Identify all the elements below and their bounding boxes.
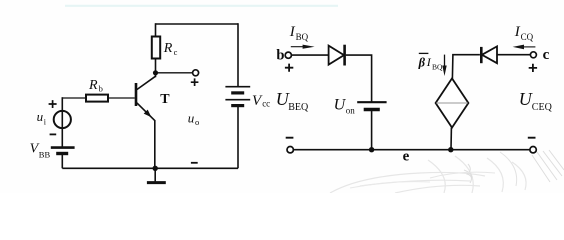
svg-text:u: u bbox=[37, 109, 44, 124]
transistor T base bar bbox=[135, 83, 138, 106]
label + (output polarity) bbox=[191, 78, 199, 86]
wire: base wire from source corner to Rb bbox=[62, 97, 86, 99]
battery Uon short plate bbox=[364, 108, 380, 111]
wire: VBB to bottom wire bbox=[61, 154, 63, 169]
wire: left branch vertical through source bbox=[61, 97, 63, 147]
wire: Rc branch from top wire to resistor bbox=[155, 23, 157, 37]
wire: Vcc branch upper vertical bbox=[237, 23, 239, 86]
svg-text:U: U bbox=[334, 97, 347, 114]
node: Uon junction dot bbox=[369, 147, 374, 152]
label - (right bottom polarity) bbox=[528, 137, 536, 139]
label ui bbox=[37, 109, 47, 126]
label ICQ bbox=[514, 24, 534, 42]
battery VBB long plate bbox=[51, 146, 75, 149]
battery Vcc plate 2 short bbox=[231, 91, 244, 94]
decorative scan band (not labelled further) bbox=[65, 5, 338, 7]
battery VBB short plate bbox=[56, 152, 68, 155]
wire: D1 to Uon corner bbox=[346, 55, 372, 102]
svg-text:BB: BB bbox=[39, 149, 51, 159]
wire: base wire from Rb to bar bbox=[108, 97, 135, 99]
battery Vcc plate 1 long bbox=[225, 86, 250, 88]
battery Vcc plate 4 short bbox=[231, 104, 244, 107]
transistor T emitter arrow bbox=[144, 110, 152, 118]
wire: b to diode D1 bbox=[292, 54, 329, 56]
diode D1 triangle bbox=[329, 46, 344, 65]
svg-text:β: β bbox=[418, 56, 426, 70]
terminal: output open circle bbox=[193, 70, 199, 76]
node: collector junction dot bbox=[153, 70, 158, 75]
ground bbox=[154, 168, 156, 181]
arrow ICQ bbox=[521, 46, 535, 48]
diode D2 triangle bbox=[482, 46, 497, 63]
svg-text:T: T bbox=[160, 92, 170, 107]
wire: Uon to bottom wire bbox=[371, 110, 373, 150]
resistor Rc bbox=[152, 37, 160, 59]
label + (b polarity) bbox=[285, 64, 293, 72]
arrow beta IBQ downward bbox=[444, 55, 446, 68]
wire: left circuit top wire bbox=[156, 23, 239, 25]
source ui circle bbox=[54, 111, 71, 128]
node: source junction dot bbox=[448, 147, 453, 152]
svg-text:c: c bbox=[543, 47, 550, 63]
resistor Rb bbox=[86, 95, 108, 102]
label - (ui polarity) bbox=[50, 133, 57, 135]
svg-text:CEQ: CEQ bbox=[532, 102, 553, 113]
node: emitter-ground junction dot bbox=[153, 166, 158, 171]
label c bbox=[543, 47, 550, 63]
terminal c open circle bbox=[530, 52, 536, 58]
label UBEQ bbox=[276, 89, 309, 113]
svg-text:R: R bbox=[88, 78, 98, 93]
terminal e-side right open circle bbox=[530, 147, 536, 153]
wire: Rc bottom to collector node bbox=[155, 59, 157, 78]
dependent source middle line bbox=[436, 102, 468, 104]
label - (left bottom polarity) bbox=[286, 137, 294, 139]
svg-text:on: on bbox=[346, 106, 356, 116]
svg-text:c: c bbox=[174, 47, 178, 57]
svg-text:BEQ: BEQ bbox=[288, 102, 309, 113]
svg-text:e: e bbox=[403, 149, 410, 165]
label + (ui polarity) bbox=[49, 100, 57, 108]
decorative watermark (not labelled further) bbox=[330, 156, 526, 193]
svg-text:BQ: BQ bbox=[432, 62, 443, 71]
label Uon bbox=[334, 97, 356, 116]
svg-text:BQ: BQ bbox=[296, 32, 309, 42]
wire: collector node to output terminal bbox=[156, 72, 193, 74]
label Rb bbox=[88, 78, 103, 94]
label + (c polarity) bbox=[529, 64, 537, 72]
arrow IBQ bbox=[291, 46, 305, 48]
svg-text:b: b bbox=[99, 84, 103, 94]
battery Vcc plate 3 long bbox=[225, 99, 250, 101]
label Vcc bbox=[252, 93, 270, 109]
label b bbox=[276, 47, 284, 63]
wire: left circuit bottom wire bbox=[62, 167, 238, 169]
svg-text:I: I bbox=[426, 55, 432, 69]
svg-text:o: o bbox=[195, 117, 199, 127]
wire: Vcc branch lower vertical bbox=[237, 106, 239, 169]
battery Uon long plate bbox=[357, 101, 386, 103]
wire: D2 to c terminal bbox=[497, 54, 530, 56]
transistor T emitter lead bbox=[137, 103, 155, 121]
label uo bbox=[188, 110, 199, 127]
wire: diamond bottom to junction bbox=[450, 128, 452, 150]
dependent source diamond bbox=[436, 78, 469, 127]
wire: diamond top to top wire corner bbox=[452, 55, 480, 79]
terminal b open circle bbox=[285, 52, 291, 58]
label UCEQ bbox=[519, 89, 553, 113]
diode D1 bar bbox=[343, 45, 346, 66]
transistor T collector lead bbox=[137, 76, 156, 89]
wire: emitter down to bottom wire bbox=[154, 120, 156, 168]
label beta-bar IBQ bbox=[418, 55, 443, 71]
svg-text:CQ: CQ bbox=[521, 32, 534, 42]
label IBQ bbox=[289, 24, 309, 42]
label VBB bbox=[30, 141, 51, 159]
svg-text:b: b bbox=[276, 47, 284, 63]
label - (output polarity) bbox=[191, 162, 198, 164]
svg-text:i: i bbox=[44, 117, 47, 126]
label e bbox=[403, 149, 410, 165]
svg-text:U: U bbox=[519, 89, 533, 109]
svg-text:cc: cc bbox=[262, 99, 270, 109]
label Rc bbox=[163, 41, 178, 57]
wire: equivalent circuit bottom wire bbox=[293, 149, 530, 151]
svg-text:R: R bbox=[163, 41, 173, 56]
terminal e-side left open circle bbox=[287, 147, 293, 153]
svg-text:u: u bbox=[188, 110, 195, 125]
label T bbox=[160, 92, 170, 107]
diode D2 bar bbox=[480, 47, 483, 63]
